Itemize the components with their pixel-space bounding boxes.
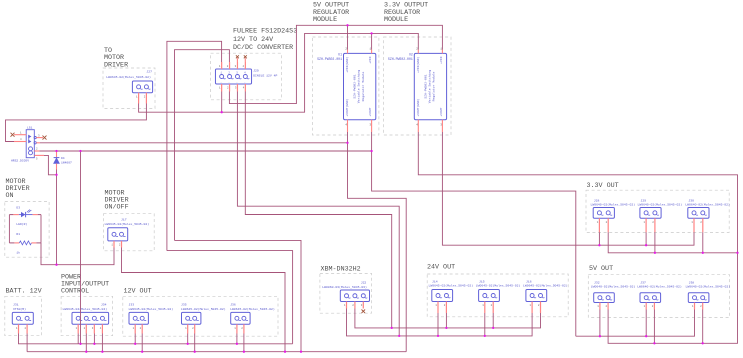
wire 5V rail A3 segment xyxy=(576,310,695,337)
svg-text:12V OUT: 12V OUT xyxy=(124,288,152,296)
svg-text:LW0645-02(Molex_5045-02): LW0645-02(Molex_5045-02) xyxy=(476,284,521,288)
connector J37 5v2 xyxy=(637,280,682,309)
connector J35 12v2 xyxy=(181,303,226,334)
svg-text:SZH-PWS02-001: SZH-PWS02-001 xyxy=(388,57,413,61)
wire U1 pin4 GND run xyxy=(348,132,407,352)
dashed box: 5V out group xyxy=(588,275,729,318)
wire J34 pin1 riser xyxy=(77,334,79,344)
svg-text:Regulator Module: Regulator Module xyxy=(432,72,436,102)
svg-text:J29: J29 xyxy=(253,69,259,73)
svg-text:J27: J27 xyxy=(146,69,152,73)
svg-text:LW0860-03(Molex_5045-03): LW0860-03(Molex_5045-03) xyxy=(322,285,367,289)
svg-text:LW0640-02(Molex_5045-02): LW0640-02(Molex_5045-02) xyxy=(591,285,636,289)
connector J16 24v3 xyxy=(523,280,568,314)
svg-text:ON/OFF: ON/OFF xyxy=(105,204,129,212)
wire J34 pin4 riser xyxy=(101,334,103,352)
regulator module U2 SZH-PWS02-001 (3.3V) xyxy=(388,47,447,132)
no-connect X on J22 pin 3 xyxy=(362,310,366,314)
junction J29 pin1 / J27 bus xyxy=(221,111,223,113)
wire 3.3V con1 pin1 riser xyxy=(598,232,600,245)
svg-text:LW0645-02(Molex_5045-02): LW0645-02(Molex_5045-02) xyxy=(181,307,226,311)
wire J15 pin1 riser xyxy=(484,313,486,336)
svg-text:2: 2 xyxy=(416,47,418,50)
svg-text:XBM-DN32H2: XBM-DN32H2 xyxy=(321,266,361,274)
junction 3.3V con2 pin2 / rail B2 xyxy=(654,252,656,254)
dashed box: power io control group xyxy=(61,296,113,335)
wire U1 pin3 5V run xyxy=(372,132,576,336)
junction J14 pin2 / 24V rail A xyxy=(445,327,447,329)
connector J29 conv xyxy=(215,62,277,92)
svg-text:2: 2 xyxy=(345,47,347,50)
svg-text:MODULE: MODULE xyxy=(384,16,408,24)
wire x167 bottom run to rail R1 xyxy=(167,251,293,344)
svg-text:LW0645-04(Molex_5045-04): LW0645-04(Molex_5045-04) xyxy=(63,307,108,311)
svg-text:LW0645-02(Molex_5045-02): LW0645-02(Molex_5045-02) xyxy=(429,284,474,288)
svg-text:D3: D3 xyxy=(16,206,20,209)
wire LED loop to J17 pin1 xyxy=(41,243,114,265)
svg-text:LW0645-02(Molex_5045-02): LW0645-02(Molex_5045-02) xyxy=(523,284,568,288)
dashed box: 24V out group xyxy=(427,274,568,317)
connector J33 12v1 xyxy=(129,303,174,334)
svg-text:ON: ON xyxy=(6,192,14,200)
junction x80.5 / rail R1 xyxy=(79,343,81,345)
connector J28 3v3a xyxy=(591,198,636,232)
wire 3.3V con2 pin1 riser xyxy=(645,232,647,245)
svg-text:LW0640-02(Molex_5045-02): LW0640-02(Molex_5045-02) xyxy=(638,203,683,207)
wire 24V rail A xyxy=(392,313,541,328)
wire 12V out 1 pin2 xyxy=(141,334,143,352)
svg-text:R1: R1 xyxy=(16,233,20,236)
wire 3.3V con2 pin2 riser xyxy=(654,232,656,253)
wire 12V out 3 pin1 xyxy=(236,334,238,344)
svg-text:D4: D4 xyxy=(61,157,65,160)
svg-text:FULREE FS12D24S3: FULREE FS12D24S3 xyxy=(233,28,297,36)
wire relay contact to U1 GND node xyxy=(40,142,348,144)
wire U1 pin2 riser xyxy=(347,25,349,49)
svg-text:SZH-PWS02-001: SZH-PWS02-001 xyxy=(317,57,342,61)
svg-text:+VOUT(GND): +VOUT(GND) xyxy=(345,98,349,116)
svg-text:DINGLE 12V 4P: DINGLE 12V 4P xyxy=(253,73,277,77)
svg-text:LW0640-02(Molex_5045-02): LW0640-02(Molex_5045-02) xyxy=(686,285,731,289)
svg-text:Regulator Module: Regulator Module xyxy=(361,72,365,102)
junction x80.5 on coil wire xyxy=(79,150,81,152)
no-connect X relay pin 1 xyxy=(11,133,15,137)
svg-text:MODULE: MODULE xyxy=(313,16,337,24)
svg-text:LS1: LS1 xyxy=(27,126,33,129)
junction 5V con2 pin2 / rail B3 xyxy=(653,342,655,344)
wire J29 pin2 to modules VIN bus xyxy=(229,25,442,103)
svg-text:BATT. 12V: BATT. 12V xyxy=(6,288,42,296)
wire riser x167 to J29 pin1 top xyxy=(167,41,222,250)
svg-text:+VOUT: +VOUT xyxy=(440,107,443,116)
connector J22 xbm xyxy=(322,281,369,309)
wire rail R1 12V xyxy=(19,334,293,344)
dashed box: 3.3V regulator module group xyxy=(384,37,452,135)
wire J22 pin2 to rail A xyxy=(355,309,392,328)
connector J29 3v3b xyxy=(638,198,683,232)
junction 12V2 pin2 / rail R2 xyxy=(194,351,196,353)
svg-text:1: 1 xyxy=(440,47,442,50)
connector J27 motor xyxy=(106,69,152,103)
wire 3.3V rail B2 xyxy=(608,232,737,253)
connector J31 batt xyxy=(12,303,33,334)
relay LS1 HRS2-DC5V xyxy=(11,126,44,162)
svg-text:3: 3 xyxy=(369,123,371,126)
wire riser x174.5 to J29 pin2 top xyxy=(175,50,230,241)
svg-text:LW0640-02(Molex_5045-02): LW0640-02(Molex_5045-02) xyxy=(637,285,682,289)
wire U2 pin3 3.3V run xyxy=(442,132,694,245)
no-connect X relay pin 3 xyxy=(43,136,47,140)
svg-text:LW0645-02(Molex_5045-02): LW0645-02(Molex_5045-02) xyxy=(106,75,151,79)
junction U1 pin1 on bus2 xyxy=(370,32,372,34)
diode D4 1N4007 xyxy=(54,151,72,170)
wire J34 pin2 riser xyxy=(85,334,87,352)
svg-text:+VOUT: +VOUT xyxy=(369,107,372,116)
dashed box: xbm-dn32h2 group xyxy=(320,273,372,313)
J29 top pin3/pin4 no-connect stubs xyxy=(236,58,238,62)
junction J34 pin4 / rail R2 xyxy=(101,351,103,353)
wire 12V out 3 pin2 xyxy=(243,334,245,352)
dashed box: 5V regulator module group xyxy=(313,37,379,135)
junction 3.3V con1 pin1 / rail A2 xyxy=(598,244,600,246)
svg-text:3: 3 xyxy=(440,123,442,126)
svg-text:+VIN(GND): +VIN(GND) xyxy=(345,56,349,72)
svg-text:5V OUT: 5V OUT xyxy=(589,265,613,273)
junction 5V con1 pin1 / rail A3 xyxy=(599,335,601,337)
svg-text:1N4007: 1N4007 xyxy=(61,162,72,165)
svg-text:XT60(M): XT60(M) xyxy=(13,307,26,311)
svg-text:1k: 1k xyxy=(16,250,20,254)
wire 5V rail B3 xyxy=(608,310,703,344)
wire 5V con1 pin1 riser xyxy=(599,310,601,337)
junction J34 pin3 / rail R1 xyxy=(93,343,95,345)
svg-text:J28: J28 xyxy=(594,198,600,202)
svg-text:J17: J17 xyxy=(121,218,127,222)
regulator module U1 SZH-PWS02-001 (5V) xyxy=(317,47,376,132)
junction 12V1 pin1 / rail R1 xyxy=(134,343,136,345)
svg-text:DC/DC CONVERTER: DC/DC CONVERTER xyxy=(233,44,293,52)
wire J27 pin1 to converter/modules bus xyxy=(139,33,419,112)
junction 12V1 pin2 / rail R2 xyxy=(141,351,143,353)
svg-text:1: 1 xyxy=(369,47,371,50)
dashed box: to motor driver group xyxy=(103,68,155,109)
svg-text:J22: J22 xyxy=(361,281,367,285)
wire 12V out 2 pin2 xyxy=(194,334,196,352)
svg-text:+VIN(GND): +VIN(GND) xyxy=(416,56,420,72)
svg-text:4: 4 xyxy=(416,123,418,126)
wire J15 pin2 riser xyxy=(492,313,494,328)
wire J14 pin2 riser xyxy=(445,313,447,328)
resistor R1 1k xyxy=(9,233,41,254)
no-connect X on J29 top pin 4 xyxy=(244,55,247,58)
junction J15 pin2 / 24V rail A xyxy=(492,327,494,329)
connector J36 12v3 xyxy=(230,303,275,334)
wire J34 pin3 riser xyxy=(93,334,95,344)
junction J34 pin2 / rail R2 xyxy=(85,351,87,353)
wire J17 pin2 run xyxy=(122,248,286,352)
svg-text:12V TO 24V: 12V TO 24V xyxy=(233,36,273,44)
dashed box: 3.3V out group xyxy=(586,190,729,232)
junction 12V2 pin1 / rail R1 xyxy=(187,343,189,345)
svg-text:J29: J29 xyxy=(641,198,647,202)
connector J32 5v1 xyxy=(591,280,636,309)
junction 5V con3 pin2 / rail B3 xyxy=(702,342,704,344)
svg-text:LW0645-02(Molex_5045-02): LW0645-02(Molex_5045-02) xyxy=(105,222,150,226)
wire rail R2 xyxy=(27,351,406,353)
junction coil pin5 / D4 vertical xyxy=(55,174,57,176)
dashed box: batt group xyxy=(5,296,42,335)
svg-text:CONTROL: CONTROL xyxy=(61,288,89,296)
wire J27 pin2 to relay coil-side pin xyxy=(6,104,147,142)
wire 5V con2 pin2 riser xyxy=(653,310,655,344)
svg-text:4: 4 xyxy=(345,123,347,126)
wire U2 pin4 GND run xyxy=(418,132,737,343)
svg-text:J30: J30 xyxy=(688,198,694,202)
wire J22 pin1 to rail B xyxy=(347,309,400,336)
wire riser x80.5 xyxy=(80,151,82,344)
junction 3.3V con3 pin2 / rail B2 xyxy=(702,252,704,254)
wire x174.5 bottom run to rail R2 xyxy=(175,240,302,351)
wire led/resistor loop sides xyxy=(8,215,10,243)
junction 12V3 pin2 / rail R2 xyxy=(243,351,245,353)
junction GND vertical / rail B2 xyxy=(736,252,738,254)
dashed box: motor driver on group xyxy=(5,202,49,258)
wire 24V rail B xyxy=(399,313,532,336)
svg-text:DRIVER: DRIVER xyxy=(104,62,128,70)
junction 5V con2 pin1 / rail A3 xyxy=(645,335,647,337)
svg-text:+VIN: +VIN xyxy=(440,56,443,63)
no-connect X on J29 top pin 3 xyxy=(236,55,239,58)
junction J15 pin1 / 24V rail B xyxy=(484,335,486,337)
wire J29 pin4 to 24V rail xyxy=(245,92,391,328)
wire J29 pin1 bottom riser xyxy=(221,92,223,113)
svg-text:+VIN: +VIN xyxy=(369,56,372,63)
led D3 LED(R) xyxy=(9,206,41,226)
dashed box: 12V out group xyxy=(123,296,278,336)
wire relay coil to U1 5V node xyxy=(39,150,371,152)
wire 5V con3 pin2 riser xyxy=(702,310,704,344)
svg-text:LW0640-02(Molex_5045-02): LW0640-02(Molex_5045-02) xyxy=(591,203,636,207)
wire U1 pin1 riser xyxy=(371,33,373,49)
wire batt pin2 to rail R2 xyxy=(26,334,28,352)
connector J38 5v3 xyxy=(686,280,731,309)
junction 12V3 pin1 / rail R1 xyxy=(236,343,238,345)
junction D4 top on coil wire xyxy=(55,150,57,152)
connector J15 24v2 xyxy=(476,280,521,314)
svg-text:LW0645-02(Molex_5045-02): LW0645-02(Molex_5045-02) xyxy=(129,307,174,311)
dashed box: motor driver on/off group xyxy=(104,214,155,251)
junction coil wire / U1 pin3 xyxy=(370,150,372,152)
wire 5V con2 pin1 riser xyxy=(645,310,647,337)
svg-text:24V OUT: 24V OUT xyxy=(427,264,455,272)
wire J14 pin1 riser xyxy=(437,313,439,336)
svg-text:+VOUT(GND): +VOUT(GND) xyxy=(416,98,420,116)
svg-text:LW0640-02(Molex_5045-02): LW0640-02(Molex_5045-02) xyxy=(685,203,730,207)
connector J30 3v3c xyxy=(685,198,730,232)
connector J34 pwr xyxy=(63,303,109,334)
wire 12V out 2 pin1 xyxy=(187,334,189,344)
connector J17 onoff xyxy=(105,218,150,248)
junction D4 vertical / y264.7 wire xyxy=(55,264,57,266)
svg-text:LED(R): LED(R) xyxy=(16,222,27,226)
svg-text:HRS2.DC05V: HRS2.DC05V xyxy=(11,160,29,163)
wire 3.3V con3 pin2 riser xyxy=(702,232,704,253)
junction x301 riser / rail R2 xyxy=(300,351,302,353)
wire D4 net vertical xyxy=(56,170,58,265)
wire J29 pin3 to 24V rail xyxy=(237,92,399,336)
svg-text:3.3V OUT: 3.3V OUT xyxy=(587,182,619,190)
svg-text:LW0645-02(Molex_5045-02): LW0645-02(Molex_5045-02) xyxy=(230,307,275,311)
dashed box: dc/dc converter group xyxy=(211,53,282,100)
junction U1 pin2 on VIN bus xyxy=(346,24,348,26)
junction 3.3V con2 pin1 / rail A2 xyxy=(645,244,647,246)
connector J14 24v1 xyxy=(429,280,474,314)
junction J17 pin2 riser / rail R2 xyxy=(284,351,286,353)
junction relay contact / U1 pin4 xyxy=(346,142,348,144)
wire relay coil pin5 jog xyxy=(44,155,57,174)
junction x391.7 / 24V rail A xyxy=(391,327,393,329)
junction x399.2 / 24V rail B xyxy=(398,335,400,337)
junction J14 pin1 / 24V rail B xyxy=(437,335,439,337)
wire 12V out 1 pin1 xyxy=(134,334,136,344)
